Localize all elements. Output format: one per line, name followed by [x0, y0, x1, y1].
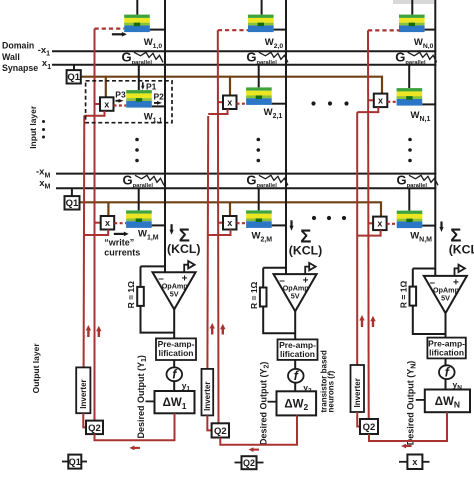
programming terminal label P3 [115, 90, 126, 103]
svg-text:lification: lification [159, 348, 194, 358]
X output hook row1 col3 (red) [357, 107, 378, 112]
svg-text:Q2: Q2 [88, 423, 101, 434]
multiplier box X row1 col3 [374, 94, 388, 108]
rail stub into X box row1 col1 (red) [95, 103, 101, 105]
svg-text:x: x [227, 218, 232, 228]
error feedback path col1 (red) [95, 413, 175, 440]
svg-text:lification: lification [429, 347, 464, 357]
synapse device WN,0 [399, 15, 425, 33]
op-amp output wire col2 [294, 311, 296, 339]
feedback wire top col1 [141, 265, 166, 267]
pre-amplification box col1 [156, 338, 196, 360]
multiplier box X rowM col3 [373, 217, 387, 231]
conductance G_parallel row1 col1 [122, 50, 164, 67]
feedback wire bottom colN [413, 306, 446, 334]
feedback direction arrow col1 (red) [129, 446, 134, 451]
stub xM line to device rowM col2 [258, 188, 260, 210]
stub xM line to device rowM col3 [408, 188, 410, 210]
row line -xM [56, 173, 436, 175]
desired output feed line col2 [268, 401, 277, 403]
legend X stub right [422, 461, 429, 463]
X output hook rowM col1 (red) [84, 230, 108, 236]
write stub to X2,M (brown) [229, 202, 231, 217]
feedback wire top col2 [263, 267, 286, 269]
error feedback path col2 (red) [220, 415, 297, 444]
feedback wire bottom col1 [141, 306, 175, 333]
write dashed stub row1 col1 (red) [114, 104, 127, 106]
column dots col1 [135, 138, 139, 163]
programming terminal label P2 [154, 91, 165, 105]
svg-text:Input layer: Input layer [28, 105, 38, 149]
svg-text:Q1: Q1 [69, 457, 81, 467]
switch box Q1 rowM [65, 196, 80, 209]
programming terminal label P1 [141, 82, 157, 92]
rail arrows col1 (red) [86, 325, 102, 337]
legend Q1 stub left [62, 461, 68, 463]
column bus 1 [164, 0, 166, 272]
write currents arrow rowM [124, 232, 129, 237]
KCL sum arrow colN [439, 227, 443, 232]
svg-text:5V: 5V [441, 293, 450, 302]
stub x1 line to device row1 col1 [138, 65, 140, 90]
dashed highlight box around W1,1 cell [86, 81, 172, 123]
row line xM [56, 187, 436, 189]
inverter box col1 [76, 367, 90, 413]
feedback wire bottom col2 [263, 307, 295, 334]
desired output feed line col1 [146, 400, 155, 402]
svg-text:P1: P1 [146, 82, 157, 92]
synapse device W2,0 [248, 15, 274, 33]
wire pre-amp to f col2 [294, 360, 296, 369]
conductance G_parallel rowM colN [397, 173, 439, 190]
wire device to bus rowM col1 [152, 224, 165, 226]
label write currents [104, 238, 140, 258]
svg-text:Output layer: Output layer [31, 343, 41, 394]
row dots between col2 and colN row1 [311, 101, 348, 105]
error feedback path colN (red) [369, 412, 447, 441]
wire WN,0 to bus [425, 29, 436, 31]
write stub to X2,1 (brown) [229, 77, 231, 96]
svg-text:Wall: Wall [2, 52, 20, 62]
activation function f colN [439, 365, 455, 379]
stub x1 line to device row1 col3 [408, 65, 410, 88]
write dashed wire to W2,0 (red) [218, 29, 248, 31]
pre-amplification box colN [427, 338, 465, 359]
stub x1 line to Q1 row1 [73, 65, 75, 70]
rail stub into X box row1 col2 (red) [218, 101, 223, 103]
input stub above WN,0 [411, 0, 413, 15]
write row wire rowM (brown) [80, 202, 382, 217]
wire pre-amp to f colN [445, 358, 447, 365]
op-amp output wire col1 [173, 309, 175, 338]
svg-text:(KCL): (KCL) [449, 243, 474, 257]
resistor R=1ohm colN [410, 287, 417, 306]
rail arrows col2 (red) [210, 323, 226, 335]
inverter box colN [351, 365, 365, 412]
inverter box col2 [202, 369, 214, 416]
feedback rail B colN (red) [356, 112, 358, 365]
write dashed stub row1 col3 (red) [387, 101, 396, 103]
rail stub into X box rowM col3 (red) [368, 222, 373, 224]
conductance G_parallel row1 colN [395, 50, 437, 67]
rail stub into X box rowM col2 (red) [218, 222, 223, 224]
svg-text:Q1: Q1 [67, 72, 80, 83]
svg-text:Q2: Q2 [363, 422, 376, 433]
row line -x1 [52, 50, 436, 52]
inverter to Q2 wire col2 (red) [207, 415, 211, 430]
svg-text:lification: lification [280, 349, 315, 359]
delta W box col1 [155, 391, 195, 413]
power flag on op-amp U2 [305, 267, 309, 275]
wire device to bus row1 col1 [152, 105, 165, 107]
rail arrows colN (red) [359, 315, 375, 327]
legend Q2 stub right [257, 462, 264, 464]
vertical dots next to input layer [42, 120, 45, 139]
activation function f col2 [288, 369, 304, 383]
write dashed wire to W1,0 (red) [95, 28, 125, 30]
wire W1,0 to bus [150, 29, 165, 31]
resistor lead top col1 [140, 266, 142, 287]
svg-text:R = 1Ω: R = 1Ω [399, 281, 409, 309]
row dots between col2 and colN rowM [312, 216, 346, 220]
write dashed stub rowM col2 (red) [237, 222, 247, 224]
X output hook row1 col2 (red) [208, 109, 227, 114]
synapse device W2,1 [246, 87, 272, 105]
desired output feed line colN [416, 399, 425, 401]
multiplier box X legend [407, 455, 422, 470]
feedback wire top colN [413, 268, 436, 270]
svg-text:Q2: Q2 [243, 458, 255, 468]
wire pre-amp to f col1 [173, 360, 175, 367]
svg-text:x: x [378, 96, 383, 106]
svg-text:x: x [105, 218, 110, 228]
synapse device W1,1 [126, 90, 152, 108]
write stub to X1,1 (brown) [105, 77, 107, 98]
X output hook rowM col3 (red) [357, 230, 380, 236]
delta W box col2 [277, 391, 317, 415]
svg-text:currents: currents [104, 247, 140, 257]
wire f to delta-W col2 [294, 383, 296, 392]
rail stub into X box row1 col3 (red) [368, 99, 374, 101]
pre-amplification box col2 [278, 339, 318, 360]
label Domain Wall Synapse [2, 40, 38, 73]
write row wire row1 (brown) [81, 77, 382, 95]
wire device to bus rowM col2 [272, 224, 286, 226]
synapse device W2,M [246, 210, 272, 228]
X output hook row1 col1 (red) [84, 111, 104, 116]
svg-text:R = 1Ω: R = 1Ω [249, 281, 259, 309]
switch box Q2 col1 [86, 421, 103, 435]
feedback direction arrow col2 (red) [249, 447, 254, 452]
feedback rail B col2 (red) [206, 116, 209, 369]
legend Q2 stub left [235, 462, 242, 464]
op-amp U2 [274, 274, 317, 311]
legend Q1 stub right [81, 461, 87, 463]
stub x1 line to device row1 col2 [258, 65, 260, 88]
synapse device W1,0 [124, 15, 150, 33]
multiplier box X rowM col1 [101, 216, 115, 230]
svg-text:x: x [412, 457, 417, 467]
column bus N [434, 0, 436, 276]
inverter to Q2 wire col1 (red) [83, 413, 86, 427]
write dashed stub row1 col2 (red) [237, 103, 247, 105]
multiplier box X row1 col2 [223, 96, 237, 110]
svg-text:x: x [377, 219, 382, 229]
switch box Q2 colN [360, 419, 378, 434]
multiplier box X row1 col1 [100, 97, 114, 111]
KCL sum arrow col2 [289, 226, 293, 231]
svg-text:R = 1Ω: R = 1Ω [126, 281, 136, 309]
column dots colN [408, 138, 412, 163]
feedback rail B col1 (red) [83, 116, 86, 368]
inverter to Q2 wire colN (red) [357, 412, 360, 427]
input stub above W1,0 [136, 0, 138, 15]
svg-text:neurons (f): neurons (f) [327, 370, 336, 412]
synapse device WN,1 [397, 88, 423, 106]
svg-text:x: x [227, 97, 232, 107]
op-amp output wire colN [445, 313, 447, 338]
feedback direction arrow colN (red) [401, 444, 406, 449]
conductance G_parallel rowM col2 [246, 173, 288, 190]
switch box Q2 legend [242, 456, 257, 469]
wire f to delta-W colN [445, 379, 447, 389]
column bus 2 [285, 0, 287, 274]
synapse device W1,M [126, 210, 152, 228]
resistor lead top col2 [262, 268, 264, 288]
row line x1 [52, 64, 436, 66]
svg-text:P3: P3 [115, 90, 126, 100]
X output hook rowM col2 (red) [208, 230, 231, 236]
op-amp UN [424, 276, 467, 313]
svg-text:(KCL): (KCL) [167, 242, 200, 256]
svg-text:Domain: Domain [2, 40, 34, 50]
activation function f col1 [167, 367, 183, 381]
svg-text:Q2: Q2 [214, 426, 227, 437]
switch box Q1 legend [68, 455, 81, 469]
input stub above W2,0 [261, 0, 263, 15]
svg-text:Inverter: Inverter [79, 379, 88, 408]
op-amp U1 [153, 272, 196, 309]
svg-text:Inverter: Inverter [203, 382, 212, 411]
KCL sum arrow col1 [170, 230, 174, 235]
multiplier box X rowM col2 [223, 216, 237, 230]
stub xM line to device rowM col1 [138, 188, 140, 210]
svg-text:“write”: “write” [104, 238, 134, 248]
write dashed stub rowM col1 (red) [114, 222, 126, 224]
wire f to delta-W col1 [173, 381, 175, 391]
legend X stub left [399, 461, 407, 463]
svg-text:5V: 5V [291, 292, 300, 301]
write dashed stub rowM col3 (red) [387, 223, 397, 225]
svg-text:Inverter: Inverter [353, 378, 362, 407]
feedback rail A col1 (red) [94, 29, 96, 421]
power flag on op-amp UN [455, 268, 459, 276]
rail stub into X box rowM col1 (red) [95, 222, 101, 224]
resistor R=1ohm col1 [137, 287, 144, 306]
write stub to X1,M (brown) [107, 202, 109, 217]
feedback rail A colN (red) [367, 30, 370, 419]
svg-text:Synapse: Synapse [2, 63, 38, 73]
feedback rail A col2 (red) [217, 30, 220, 423]
resistor R=1ohm col2 [260, 288, 267, 307]
write dashed wire to WN,0 (red) [368, 29, 399, 31]
label transistor based neurons [320, 350, 336, 412]
svg-text:P2: P2 [154, 91, 165, 101]
svg-text:Q1: Q1 [66, 198, 79, 209]
switch box Q2 col2 [212, 423, 229, 437]
resistor lead top colN [412, 269, 414, 287]
delta W box colN [425, 390, 470, 413]
wire W2,0 to bus [274, 29, 286, 31]
column dots col2 [257, 138, 261, 163]
conductance G_parallel row1 col2 [246, 50, 288, 67]
gray crop artifact top [393, 0, 434, 4]
stub xM line to Q1 rowM [71, 188, 73, 196]
conductance G_parallel rowM col1 [123, 173, 165, 190]
wire device to bus rowM col3 [422, 225, 435, 227]
power flag on op-amp U1 [184, 265, 188, 273]
svg-text:x: x [104, 99, 109, 109]
svg-text:(KCL): (KCL) [289, 244, 322, 258]
switch box Q1 row1 [67, 70, 81, 83]
wire device to bus row1 col3 [422, 103, 435, 105]
synapse device WN,M [397, 211, 423, 228]
write current arrow row0 [122, 32, 127, 37]
wire device to bus row1 col2 [272, 103, 286, 105]
svg-text:5V: 5V [170, 290, 179, 299]
